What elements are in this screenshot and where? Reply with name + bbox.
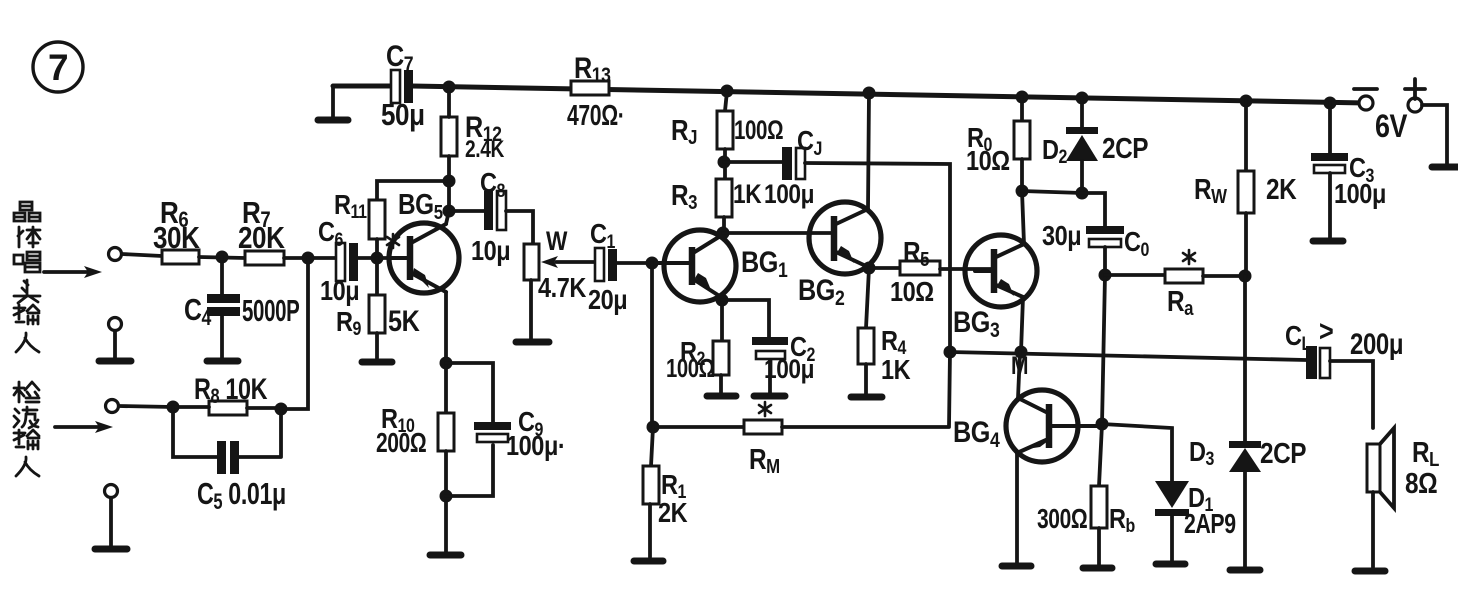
- svg-text:200Ω: 200Ω: [376, 428, 426, 459]
- svg-text:5K: 5K: [388, 304, 420, 338]
- wire BG3 collector up to R0: [1022, 191, 1024, 244]
- node R0 bottom: [1016, 185, 1029, 198]
- top supply rail: [333, 86, 1366, 103]
- wire node M horizontal run to CL: [950, 352, 1306, 360]
- svg-text:5000P: 5000P: [242, 293, 299, 328]
- ground under R2: [707, 393, 736, 400]
- potentiometer W 4.7K: [524, 226, 597, 339]
- ground under C3: [1313, 238, 1343, 245]
- svg-text:30μ: 30μ: [1042, 221, 1081, 251]
- node Ra right / Rw bottom: [1239, 270, 1252, 283]
- wire BG5 collector up: [446, 211, 449, 224]
- wire RJ to R3: [723, 149, 727, 179]
- svg-text:W: W: [546, 226, 568, 256]
- svg-text:2.4K: 2.4K: [465, 135, 505, 163]
- node RM left: [647, 421, 660, 434]
- resistor Rb 300Ω: [1037, 424, 1135, 566]
- capacitor C2: [722, 300, 816, 395]
- node RJ/R3/CJ: [718, 156, 731, 169]
- svg-text:200μ: 200μ: [1350, 326, 1403, 360]
- node D2 bottom: [1076, 187, 1089, 200]
- resistor RJ: [671, 91, 783, 149]
- ground under R1: [634, 558, 663, 565]
- ground under D1: [1156, 561, 1185, 568]
- diode D1 2AP9: [1102, 424, 1236, 563]
- capacitor C9: [446, 363, 565, 496]
- node BG5 collector / C8 junction: [443, 205, 456, 218]
- node rail/BG2: [863, 87, 876, 100]
- terminal input 1 ground post: [109, 318, 122, 331]
- ground under D3: [1230, 567, 1260, 574]
- capacitor CJ: [724, 126, 822, 209]
- svg-text:1K: 1K: [881, 355, 911, 385]
- resistor R9: [336, 258, 420, 358]
- node rail/Rw: [1240, 95, 1253, 108]
- capacitor CL: [1285, 314, 1403, 428]
- resistor R13 on rail: [567, 51, 624, 132]
- ground under Rb: [1083, 565, 1112, 572]
- label 唱 char3: [14, 252, 40, 272]
- node R8 right: [275, 403, 288, 416]
- transistor BG4: [953, 390, 1100, 462]
- label 体 char2: [18, 227, 40, 247]
- svg-text:100μ: 100μ: [1334, 179, 1386, 209]
- svg-text:R8 10K: R8 10K: [194, 372, 268, 409]
- node rail/RJ: [721, 85, 734, 98]
- svg-text:4.7K: 4.7K: [538, 273, 587, 303]
- node BG3 emitter / BG4 collector on M wire: [1015, 346, 1028, 359]
- resistor R10: [376, 363, 454, 552]
- resistor R4: [858, 268, 911, 395]
- wire input2 to R8: [119, 406, 173, 407]
- svg-text:20K: 20K: [238, 221, 285, 256]
- label 输 char5: [14, 305, 39, 324]
- svg-text:300Ω: 300Ω: [1037, 504, 1087, 535]
- speaker RL 8Ω: [1367, 428, 1439, 567]
- transistor BG2: [798, 202, 881, 310]
- terminal input 1: [109, 248, 122, 261]
- battery plus terminal: [1405, 79, 1425, 112]
- wire R6 to R7: [199, 257, 245, 258]
- input arrow 2: [55, 421, 113, 433]
- ground under speaker: [1355, 568, 1385, 575]
- wire BG5 emitter down: [444, 292, 448, 363]
- diode D3 2CP: [1189, 437, 1306, 567]
- ground battery plus: [1432, 164, 1458, 171]
- capacitor C6: [318, 217, 359, 306]
- svg-text:2CP: 2CP: [1102, 132, 1148, 164]
- ground under R10: [430, 552, 461, 559]
- capacitor C0: [1042, 221, 1150, 275]
- wire Rw/Ra node down to D3: [1243, 276, 1247, 441]
- transistor BG3: [953, 235, 1037, 342]
- transistor BG5: [389, 188, 459, 293]
- diode D2 2CP: [1042, 98, 1148, 193]
- node BG1 collector: [717, 227, 730, 240]
- node R12/R11 junction: [443, 175, 456, 188]
- svg-text:2K: 2K: [1266, 173, 1297, 205]
- input arrow 1: [44, 266, 102, 278]
- wire R7 to C6: [284, 256, 336, 260]
- resistor RM: [653, 352, 950, 477]
- ground under C4: [207, 358, 238, 365]
- wire R11 to base node: [375, 239, 379, 258]
- svg-text:2CP: 2CP: [1260, 437, 1306, 469]
- svg-text:6V: 6V: [1375, 109, 1408, 145]
- svg-text:>: >: [1319, 314, 1334, 348]
- node BG1 base: [646, 257, 659, 270]
- node R10/C9 bottom: [440, 490, 453, 503]
- svg-text:2K: 2K: [658, 498, 688, 528]
- svg-text:10Ω: 10Ω: [966, 146, 1010, 176]
- ground under BG4: [1002, 563, 1031, 570]
- svg-text:10μ: 10μ: [320, 276, 359, 306]
- label 头 char4: [14, 280, 40, 303]
- ground under terminal post 1: [99, 331, 131, 361]
- wire input1 to R6: [122, 254, 162, 256]
- node rail/C3: [1324, 97, 1337, 110]
- node M left junction: [944, 346, 957, 359]
- node BG5 emitter / R10 / C9: [440, 357, 453, 370]
- resistor Rw: [1194, 101, 1297, 276]
- svg-text:100Ω: 100Ω: [666, 354, 715, 383]
- svg-text:10μ: 10μ: [471, 236, 510, 266]
- terminal input 2 ground post: [105, 485, 118, 498]
- wire plus terminal to ground: [1422, 105, 1447, 164]
- label 输 char9: [14, 430, 39, 449]
- svg-text:50μ: 50μ: [381, 98, 425, 133]
- label 晶 (crystal input caption char1): [14, 202, 40, 221]
- resistor R2: [666, 300, 729, 395]
- resistor R0: [966, 97, 1030, 191]
- capacitor C8: [449, 168, 533, 266]
- ground under R9: [362, 359, 392, 366]
- resistor R5: [869, 236, 993, 307]
- svg-text:100Ω: 100Ω: [734, 115, 783, 145]
- wire R8 body: [173, 407, 281, 408]
- node BG5 base: [371, 252, 384, 265]
- ground under C2: [754, 393, 785, 400]
- svg-text:30K: 30K: [153, 221, 200, 256]
- node BG1 emitter: [716, 294, 729, 307]
- resistor Ra: [1105, 250, 1245, 319]
- resistor R1: [643, 427, 688, 557]
- label 检 char7: [14, 382, 39, 402]
- node C0 bottom: [1099, 269, 1112, 282]
- svg-text:2AP9: 2AP9: [1184, 508, 1236, 540]
- resistor R12: [441, 87, 505, 211]
- ground under R4: [851, 394, 882, 401]
- label 波 char8: [14, 407, 38, 428]
- terminal input 2: [106, 400, 119, 413]
- node R8 left: [167, 401, 180, 414]
- label 入 char6: [16, 333, 39, 352]
- node rail/R0: [1016, 91, 1029, 104]
- resistor R8: [194, 372, 268, 415]
- capacitor C3: [1311, 103, 1386, 238]
- wire BG4 collector up to node M: [1018, 352, 1020, 398]
- svg-text:8Ω: 8Ω: [1405, 467, 1437, 499]
- svg-text:10Ω: 10Ω: [890, 277, 934, 307]
- transistor BG1: [652, 230, 788, 302]
- figure number 7 in circle: [33, 42, 83, 92]
- ground under terminal post 2: [95, 498, 127, 549]
- node rail/D2: [1076, 92, 1089, 105]
- node C4 junction: [216, 251, 229, 264]
- capacitor C5: [173, 407, 286, 516]
- svg-text:1K: 1K: [733, 179, 762, 209]
- svg-text:100μ: 100μ: [764, 354, 814, 384]
- capacitor C7: [381, 39, 425, 133]
- resistor R3: [671, 179, 762, 232]
- svg-text:7: 7: [48, 47, 68, 88]
- wire BG1 base down to RM node: [650, 263, 654, 427]
- wire R0 bottom to D2 bottom to C0: [1022, 191, 1105, 226]
- wire BG1 collector to BG2 base: [723, 231, 833, 235]
- ground under W: [516, 339, 549, 346]
- svg-text:C5 0.01μ: C5 0.01μ: [197, 476, 286, 516]
- resistor R11: [334, 190, 399, 248]
- wire C0 bottom down to BG4 base node: [1102, 275, 1105, 424]
- wire R12 node to R11 top: [377, 181, 449, 200]
- node R7/C6/R8 junction: [302, 252, 315, 265]
- wire C6 to BG5 base: [358, 256, 389, 260]
- wire R8 right up to C6 node: [281, 258, 308, 409]
- node BG2 emitter: [863, 262, 876, 275]
- ground at C7 left: [318, 86, 348, 120]
- svg-text:100μ: 100μ: [764, 179, 814, 209]
- wire CJ to bootstrap corner and down to node M: [805, 163, 950, 352]
- label 入 char10: [16, 457, 39, 476]
- wire BG3 emitter down to node M: [1021, 297, 1023, 352]
- resistor R7: [238, 196, 285, 265]
- svg-text:20μ: 20μ: [588, 285, 627, 315]
- capacitor C4: [184, 257, 299, 358]
- resistor R6: [153, 196, 200, 264]
- node BG4 base / Rb / D1: [1096, 418, 1109, 431]
- wire BG4 emitter down to ground: [1015, 453, 1019, 563]
- svg-text:470Ω·: 470Ω·: [567, 100, 624, 132]
- svg-text:100μ·: 100μ·: [506, 431, 565, 461]
- battery minus terminal: [1354, 89, 1377, 110]
- node rail/R12: [443, 81, 456, 94]
- wire BG2 collector to rail: [868, 93, 869, 209]
- capacitor C1: [588, 219, 652, 315]
